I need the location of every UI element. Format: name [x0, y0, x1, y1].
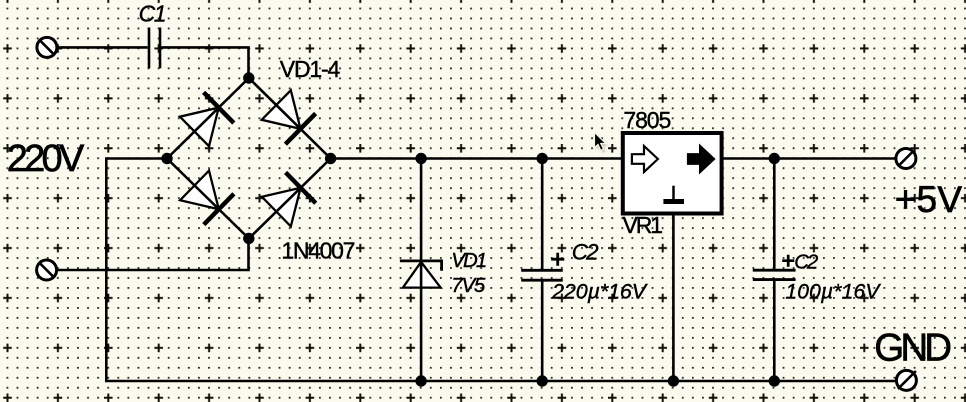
- wire top from terminal to C1: [57, 46, 148, 49]
- wire C2 branch lower: [541, 281, 544, 381]
- svg-text:C2: C2: [572, 239, 599, 264]
- wire lower terminal to bridge bottom: [56, 239, 248, 271]
- svg-text:VD1-4: VD1-4: [280, 56, 341, 82]
- svg-text:GND: GND: [874, 326, 952, 369]
- diode VD1 bridge top-left triangle: [180, 108, 219, 147]
- diode VD4 cathode bar: [286, 172, 316, 203]
- diode VD2 bridge top-right triangle: [262, 90, 301, 129]
- svg-text:VR1: VR1: [623, 212, 664, 238]
- wire regulator ground pin: [672, 213, 675, 381]
- regulator ground symbol: [672, 186, 675, 199]
- svg-text:7805: 7805: [623, 107, 671, 133]
- junction node bridge bottom: [243, 233, 254, 244]
- junction node bridge left: [161, 153, 172, 164]
- wire regulator output to +5V terminal: [722, 157, 896, 160]
- wire 220V left vertical: [106, 159, 897, 382]
- svg-text:100µ*16V: 100µ*16V: [785, 280, 881, 303]
- output capacitor polarity plus: [782, 255, 794, 267]
- svg-text:+5V: +5V: [895, 179, 963, 220]
- wire C2 branch upper: [541, 159, 544, 270]
- svg-text:7V5: 7V5: [451, 274, 486, 297]
- terminal input top-left: [37, 37, 57, 57]
- junction node C2 top: [537, 153, 548, 164]
- junction node zener top: [415, 153, 426, 164]
- capacitor C2 top plate: [521, 269, 563, 272]
- terminal output GND: [896, 370, 916, 390]
- zener diode VD1 triangle: [403, 262, 441, 288]
- svg-text:VD1: VD1: [451, 249, 487, 272]
- diode VD3 bridge bottom-left triangle: [180, 171, 219, 210]
- svg-text:C1: C1: [139, 1, 167, 27]
- wire bridge edge bottom-left: [167, 159, 249, 239]
- wire zener branch vertical: [420, 159, 423, 382]
- wire output cap branch lower: [773, 281, 776, 381]
- terminal input bottom-left: [37, 260, 57, 280]
- diode VD2 cathode bar: [285, 114, 315, 145]
- output capacitor C2 bottom plate: [753, 278, 796, 281]
- svg-text:C2: C2: [794, 251, 819, 274]
- wire bridge edge top-left: [167, 78, 249, 159]
- junction node bridge right: [325, 153, 336, 164]
- wire output cap branch upper: [773, 159, 776, 269]
- wire C1 to bridge top corner: [161, 47, 248, 78]
- wire bridge edge top-right: [249, 78, 331, 159]
- svg-text:220V: 220V: [7, 138, 85, 180]
- diode VD1 cathode bar: [204, 92, 234, 123]
- junction node zener bottom: [415, 375, 426, 386]
- wire main rail bridge to regulator: [331, 157, 623, 160]
- diode VD3 cathode bar: [204, 194, 234, 225]
- zener VD1 cathode bar with bent end: [400, 261, 442, 271]
- output capacitor C2 top plate: [753, 269, 796, 272]
- regulator U1 body (7805 box): [623, 133, 722, 214]
- junction node bridge top: [243, 72, 254, 83]
- junction node C2 bottom: [537, 375, 548, 386]
- junction node output cap top: [769, 153, 780, 164]
- regulator output arrow (solid): [688, 146, 714, 172]
- capacitor C1 right plate: [159, 28, 162, 69]
- terminal output +5V: [896, 149, 916, 169]
- svg-text:220µ*16V: 220µ*16V: [551, 280, 649, 304]
- wire bridge edge bottom-right: [249, 159, 331, 239]
- junction node regulator ground bottom: [668, 375, 679, 386]
- regulator input arrow (outline): [632, 146, 658, 172]
- capacitor C1 left plate: [148, 28, 151, 69]
- diode VD4 bridge bottom-right triangle: [262, 188, 301, 227]
- capacitor C2 bottom plate: [521, 279, 563, 282]
- junction node output cap bottom: [769, 375, 780, 386]
- mouse cursor: [595, 133, 609, 153]
- capacitor C2 polarity plus: [551, 253, 564, 266]
- svg-text:1N4007: 1N4007: [281, 238, 355, 264]
